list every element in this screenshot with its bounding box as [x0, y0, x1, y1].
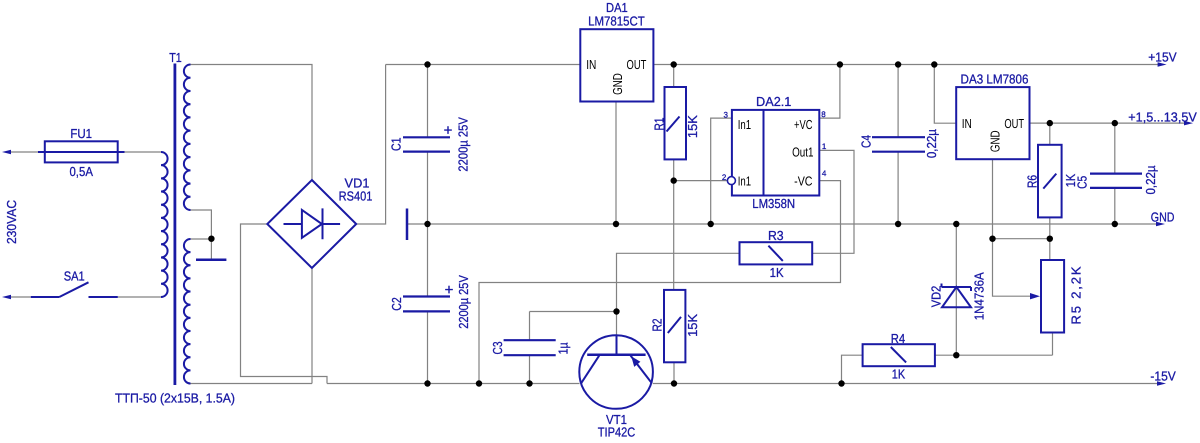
svg-text:T1: T1 — [169, 50, 182, 65]
svg-text:C2: C2 — [389, 297, 404, 311]
svg-text:1N4736A: 1N4736A — [971, 272, 986, 320]
svg-text:0,22µ: 0,22µ — [1143, 165, 1158, 194]
svg-text:SA1: SA1 — [64, 269, 85, 284]
svg-text:0,22µ: 0,22µ — [924, 129, 939, 158]
svg-text:-VC: -VC — [794, 174, 812, 189]
svg-text:VD2: VD2 — [929, 286, 944, 308]
svg-text:15K: 15K — [685, 314, 700, 337]
svg-text:2200µ 25V: 2200µ 25V — [456, 117, 471, 172]
svg-text:3: 3 — [724, 111, 729, 120]
svg-text:OUT: OUT — [1004, 116, 1024, 131]
svg-text:RS401: RS401 — [339, 189, 373, 204]
svg-text:+1,5...13,5V: +1,5...13,5V — [1128, 110, 1197, 125]
svg-text:2: 2 — [722, 173, 727, 182]
svg-text:R5 2,2K: R5 2,2K — [1068, 266, 1083, 324]
svg-text:+: + — [445, 281, 454, 298]
svg-text:230VAC: 230VAC — [4, 200, 19, 244]
svg-text:1K: 1K — [1063, 174, 1078, 188]
svg-text:0,5A: 0,5A — [69, 164, 93, 179]
svg-text:+VC: +VC — [794, 117, 812, 132]
svg-text:C4: C4 — [859, 135, 874, 148]
svg-text:8: 8 — [821, 110, 826, 119]
svg-text:R3: R3 — [768, 228, 784, 243]
svg-text:LM7815CT: LM7815CT — [588, 14, 645, 29]
svg-text:OUT: OUT — [627, 57, 647, 72]
svg-text:+15V: +15V — [1148, 50, 1177, 65]
svg-text:C3: C3 — [490, 342, 505, 355]
svg-text:In1: In1 — [738, 174, 751, 189]
svg-text:1K: 1K — [770, 265, 784, 280]
svg-text:-15V: -15V — [1150, 369, 1176, 384]
svg-text:R1: R1 — [651, 118, 666, 131]
svg-text:GND: GND — [610, 73, 625, 95]
svg-text:R2: R2 — [650, 319, 665, 332]
svg-text:Out1: Out1 — [792, 144, 813, 159]
svg-text:DA2.1: DA2.1 — [756, 94, 791, 109]
svg-text:2200µ 25V: 2200µ 25V — [456, 275, 471, 329]
svg-text:R4: R4 — [891, 331, 905, 346]
svg-text:DA3 LM7806: DA3 LM7806 — [961, 72, 1029, 87]
svg-text:R6: R6 — [1025, 175, 1040, 188]
svg-text:IN: IN — [586, 57, 596, 72]
svg-text:IN: IN — [962, 116, 972, 131]
svg-text:C1: C1 — [388, 138, 403, 152]
svg-text:LM358N: LM358N — [752, 196, 795, 211]
svg-text:15K: 15K — [685, 115, 700, 138]
svg-text:4: 4 — [822, 169, 827, 178]
svg-text:+: + — [444, 122, 453, 139]
svg-text:FU1: FU1 — [70, 126, 92, 141]
svg-text:1: 1 — [822, 142, 827, 151]
svg-text:GND: GND — [988, 130, 1003, 152]
svg-text:GND: GND — [1151, 210, 1175, 225]
svg-text:ТТП-50 (2х15В, 1.5А): ТТП-50 (2х15В, 1.5А) — [115, 391, 235, 406]
svg-text:1µ: 1µ — [556, 342, 571, 354]
svg-text:TIP42C: TIP42C — [598, 425, 636, 440]
svg-text:1K: 1K — [892, 367, 906, 382]
svg-text:In1: In1 — [738, 117, 751, 132]
